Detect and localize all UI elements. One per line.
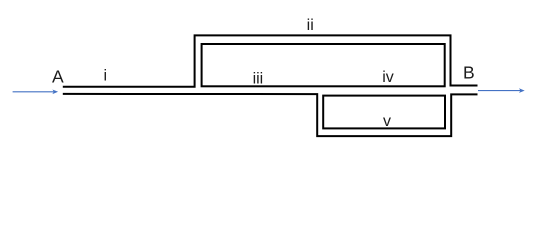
svg-text:A: A [52,67,64,87]
svg-text:iv: iv [382,69,394,86]
svg-text:i: i [104,67,108,84]
svg-text:v: v [383,113,391,130]
svg-text:B: B [463,62,475,82]
svg-text:iii: iii [253,70,264,87]
svg-text:ii: ii [307,17,314,34]
